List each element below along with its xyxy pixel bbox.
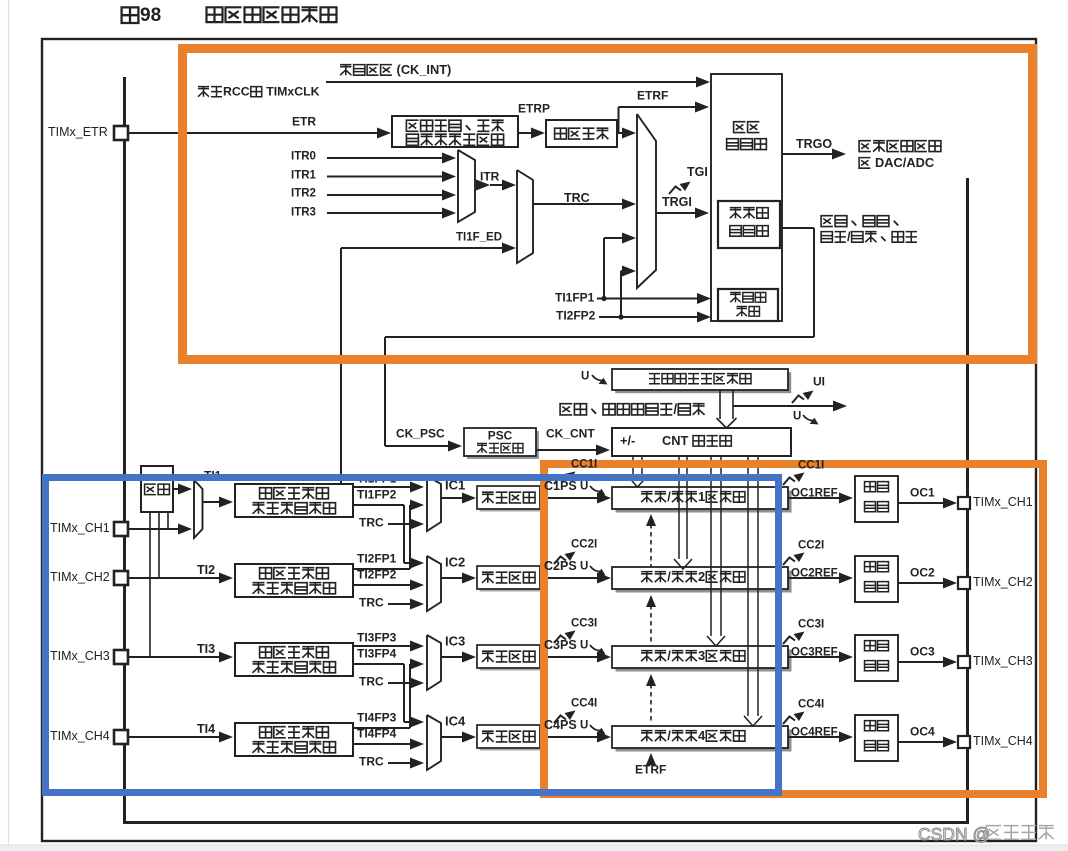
block: slave mode controller	[718, 201, 780, 248]
block: capture/compare register 1	[616, 491, 792, 513]
block: capture/compare register 2	[616, 571, 792, 593]
svg-text:ETRF: ETRF	[635, 763, 666, 777]
block: input filter	[546, 120, 617, 147]
svg-text:U: U	[793, 410, 801, 422]
mux: ITR selector	[458, 150, 475, 222]
block: encoder interface	[718, 289, 778, 321]
svg-text:TIMx_CH4: TIMx_CH4	[50, 729, 110, 743]
wire TRC into IC mux channel 2	[388, 603, 412, 605]
label from RCC TIMxCLK	[198, 87, 209, 97]
squiggle CC2I right	[783, 553, 805, 566]
wire TI3FP4 filter down to next channel mux	[353, 663, 404, 665]
block: XOR	[141, 466, 173, 512]
page bottom gray strip	[0, 846, 1068, 851]
svg-text:TI3: TI3	[197, 642, 215, 656]
svg-text:CC2I: CC2I	[798, 539, 824, 551]
wire TI1 mux output to channel1 filter	[203, 501, 222, 503]
wire update event UI to right	[733, 405, 834, 407]
squiggle CC2I left	[554, 552, 576, 565]
left vertical bus wire	[123, 77, 126, 823]
svg-text:ITR3: ITR3	[291, 206, 316, 218]
wire TI1FP2 filter down to next channel mux	[353, 504, 404, 506]
wire ETR from TIMx_ETR pin to polarity block	[128, 132, 379, 134]
svg-text:U: U	[580, 639, 588, 651]
wire OC4 to pin	[898, 741, 945, 743]
svg-text:OC3: OC3	[910, 645, 935, 659]
wire TI1 input	[128, 528, 180, 530]
double wire CNT to capture register 1	[632, 456, 634, 477]
svg-text:3: 3	[698, 648, 705, 663]
svg-text:TRGI: TRGI	[662, 195, 692, 209]
squiggle CC1I left	[554, 472, 576, 485]
block: output control channel 2	[855, 556, 898, 602]
label to other timers / DAC ADC	[859, 141, 871, 152]
svg-text:(CK_INT): (CK_INT)	[393, 62, 451, 77]
wire TRGI mux output to trigger controller	[656, 212, 696, 214]
orange highlight box top (trigger section)	[183, 49, 1033, 360]
svg-text:/: /	[667, 489, 671, 504]
svg-text:TI3FP3: TI3FP3	[357, 631, 397, 645]
svg-text:U: U	[580, 719, 588, 731]
TIMx_CH3 right pin square	[958, 656, 970, 668]
svg-text:1: 1	[698, 489, 705, 504]
svg-text:ITR2: ITR2	[291, 187, 316, 199]
TIMx_CH4 left pin square	[114, 730, 128, 744]
wire TRC into IC mux channel 4	[388, 762, 412, 764]
svg-text:TI4FP3: TI4FP3	[357, 711, 397, 725]
wire C1PS prescaler to capture register	[540, 497, 599, 499]
double wire CNT to capture register 2	[678, 456, 680, 559]
TIMx_CH3 left pin square	[114, 650, 128, 664]
wire TI4 input	[128, 736, 221, 738]
svg-text:/: /	[673, 401, 677, 416]
wire OC2REF to output control	[788, 577, 841, 579]
wire ETRF into capture register 4	[646, 753, 656, 765]
mux: TRC selector	[517, 170, 533, 263]
svg-text:TRC: TRC	[359, 675, 384, 689]
svg-text:TRC: TRC	[359, 516, 384, 530]
svg-text:CC3I: CC3I	[571, 617, 597, 629]
svg-text:CNT: CNT	[662, 433, 692, 448]
wire ITR3	[327, 212, 445, 214]
dashed compare wire capture3 up arrow	[646, 674, 656, 686]
block: capture/compare register 3	[616, 650, 792, 672]
svg-text:U: U	[580, 480, 588, 492]
svg-text:/: /	[667, 728, 671, 743]
svg-text:4: 4	[698, 728, 706, 743]
label internal clock CK_INT	[340, 65, 351, 76]
wire OC1REF to output control	[788, 497, 841, 499]
svg-text:CC1I: CC1I	[798, 459, 824, 471]
svg-text:TI2: TI2	[197, 563, 215, 577]
svg-text:TI1F_ED: TI1F_ED	[456, 231, 502, 243]
svg-text:TI3FP4: TI3FP4	[357, 647, 397, 661]
double wire CNT to capture register 3	[710, 456, 712, 636]
svg-text:IC4: IC4	[445, 713, 466, 728]
svg-text:TIMx_CH3: TIMx_CH3	[973, 654, 1033, 668]
block: CNT counter	[612, 428, 791, 456]
svg-text:CC1I: CC1I	[571, 458, 597, 470]
svg-text:TIMx_CH4: TIMx_CH4	[973, 734, 1033, 748]
svg-text:TI1FP1: TI1FP1	[555, 291, 595, 305]
wire TI1F_ED from channel1 filter to TRC mux	[340, 248, 342, 484]
svg-text:CK_CNT: CK_CNT	[546, 427, 595, 441]
svg-text:UI: UI	[813, 375, 825, 389]
block: input filter edge detector channel 2	[235, 564, 353, 597]
dashed compare wire capture1 to CNT with up arrow	[646, 514, 656, 526]
svg-text:C3PS: C3PS	[544, 638, 577, 652]
svg-text:/: /	[667, 648, 671, 663]
wire TRGO output	[782, 153, 833, 155]
svg-text:IC2: IC2	[445, 554, 465, 569]
svg-text:C4PS: C4PS	[544, 718, 577, 732]
wire C2PS prescaler to capture register	[540, 577, 599, 579]
wire TI1FP1 to encoder interface and trigger mux	[597, 298, 699, 300]
wire OC1 to pin	[898, 502, 945, 504]
svg-text:TIMx_ETR: TIMx_ETR	[48, 125, 108, 139]
page left margin rule	[8, 0, 10, 851]
block: trigger controller	[711, 74, 782, 321]
svg-text:DAC/ADC: DAC/ADC	[872, 155, 935, 170]
wire TI2 input	[128, 577, 221, 579]
svg-text:ITR0: ITR0	[291, 150, 316, 162]
svg-text:TRC: TRC	[359, 596, 384, 610]
TIMx_CH4 right pin square	[958, 736, 970, 748]
svg-text:OC1: OC1	[910, 486, 935, 500]
block: PSC prescaler	[467, 431, 539, 459]
TIMx_CH2 right pin square	[958, 577, 970, 589]
squiggle CC4I left	[554, 711, 576, 724]
label reset enable updown count	[821, 216, 833, 227]
mux: trigger selector TRGI	[637, 114, 656, 288]
orange highlight box bottom right (capture compare section)	[544, 464, 1043, 794]
TIMx_CH2 left pin square	[114, 571, 128, 585]
block: input filter edge detector channel 3	[235, 643, 353, 676]
wire ETRF from input filter to trigger mux and trigger controller	[617, 132, 624, 134]
blue highlight box bottom left (input stage)	[46, 478, 779, 793]
wire CK_CNT PSC to CNT	[536, 449, 598, 451]
wire TI2FP2 filter to IC mux	[353, 584, 413, 586]
block: IC prescaler channel 1	[480, 489, 543, 512]
block: IC prescaler channel 4	[480, 728, 543, 751]
svg-text:/: /	[847, 229, 851, 244]
dashed compare wire capture2 up arrow	[646, 595, 656, 607]
wire TI2FP2 to encoder interface and trigger mux	[599, 316, 699, 318]
wire TI4FP3 filter up to previous channel mux	[353, 727, 410, 729]
block: capture/compare register 4	[616, 730, 792, 752]
bottom bus wire	[123, 821, 967, 824]
wire ITR0	[327, 157, 445, 159]
block: IC prescaler channel 3	[480, 648, 543, 671]
wire TRC into IC mux channel 3	[388, 682, 412, 684]
wire ETRP polarity block to input filter	[518, 132, 533, 134]
svg-text:CC3I: CC3I	[798, 618, 824, 630]
svg-text:TI2FP2: TI2FP2	[556, 309, 596, 323]
mux: IC4 selector	[427, 715, 441, 770]
wire IC4 to prescaler	[441, 736, 465, 738]
squiggle CC3I left	[554, 631, 576, 644]
wire C4PS prescaler to capture register	[540, 736, 599, 738]
block: input filter edge detector channel 4	[235, 723, 353, 756]
wire TI3 input	[128, 656, 221, 658]
block: output control channel 1	[855, 476, 898, 522]
wire TI4FP4 filter to IC mux	[353, 743, 413, 745]
wire TRC into IC mux channel 1	[388, 523, 412, 525]
wire TI3FP3 filter to IC mux	[353, 645, 413, 647]
svg-text:+/-: +/-	[620, 433, 635, 448]
svg-text:TGI: TGI	[687, 165, 708, 179]
label stop clear or up/down	[560, 404, 572, 415]
wire CK_INT to trigger controller	[326, 81, 698, 83]
svg-text:TRGO: TRGO	[796, 137, 832, 151]
wire ITR mux output to TRC mux	[476, 180, 490, 191]
squiggle CC4I right	[783, 712, 805, 725]
svg-text:TI4: TI4	[197, 722, 215, 736]
squiggle CC3I right	[783, 632, 805, 645]
TIMx_CH1 left pin square	[114, 522, 128, 536]
wire OC4REF to output control	[788, 736, 841, 738]
block: IC prescaler channel 2	[480, 569, 543, 592]
squiggle U into auto-reload	[592, 375, 608, 385]
squiggle CC1I right	[783, 473, 805, 486]
labels drawn above highlight boxes	[544, 458, 824, 734]
wire OC3 to pin	[898, 661, 945, 663]
svg-text:CK_PSC: CK_PSC	[396, 427, 445, 441]
svg-text:ITR1: ITR1	[291, 169, 317, 181]
svg-text:U: U	[580, 560, 588, 572]
block: auto-reload register	[615, 372, 791, 393]
svg-text:ETRF: ETRF	[637, 89, 668, 103]
wire slave mode controller to prescaler (reset enable up/down count)	[782, 227, 814, 229]
mux: TI1 input selector	[194, 480, 203, 538]
wire IC2 to prescaler	[441, 577, 465, 579]
wire TI2FP1 filter up to previous channel mux	[353, 568, 410, 570]
title: figure 98 general purpose timer block diagram	[122, 7, 139, 23]
svg-text:/: /	[667, 569, 671, 584]
svg-text:RCC: RCC	[223, 84, 250, 98]
wire ITR1	[327, 176, 445, 178]
mux: IC1 selector	[427, 476, 441, 531]
svg-text:TIMx_CH3: TIMx_CH3	[50, 649, 110, 663]
double wire auto-reload to CNT	[719, 390, 721, 419]
wire IC3 to prescaler	[441, 656, 465, 658]
svg-text:TIMx_CH1: TIMx_CH1	[50, 521, 110, 535]
svg-text:CC4I: CC4I	[798, 698, 824, 710]
svg-text:ITR: ITR	[480, 170, 500, 184]
double wire CNT to capture register 4	[747, 456, 749, 716]
block: output control channel 4	[855, 715, 898, 761]
svg-text:TIMxCLK: TIMxCLK	[263, 84, 320, 98]
svg-text:IC3: IC3	[445, 633, 465, 648]
svg-text:ETR: ETR	[292, 115, 316, 129]
wire OC3REF to output control	[788, 656, 841, 658]
mux: IC2 selector	[427, 556, 441, 611]
wire ITR2	[327, 194, 445, 196]
block: output control channel 3	[855, 635, 898, 681]
svg-text:OC2: OC2	[910, 566, 935, 580]
svg-text:2: 2	[698, 569, 705, 584]
wire TI1FP1 filter to IC mux	[353, 486, 413, 488]
svg-text:U: U	[581, 370, 589, 382]
wire TRC from TRC mux to trigger mux	[533, 203, 624, 205]
svg-text:C1PS: C1PS	[544, 479, 577, 493]
svg-text:C2PS: C2PS	[544, 559, 577, 573]
svg-text:CC4I: CC4I	[571, 697, 597, 709]
svg-text:TI1FP2: TI1FP2	[357, 488, 397, 502]
mux: IC3 selector	[427, 635, 441, 690]
wires XOR taps to channels	[149, 512, 151, 657]
svg-text:TRC: TRC	[564, 191, 590, 205]
svg-text:TIMx_CH2: TIMx_CH2	[50, 570, 110, 584]
svg-text:CC2I: CC2I	[571, 538, 597, 550]
wire XOR output to TI1 mux	[173, 488, 181, 490]
wire IC1 to prescaler	[441, 497, 465, 499]
block: polarity selection edge detection prescaler	[392, 116, 518, 147]
wire OC2 to pin	[898, 582, 945, 584]
block: input filter edge detector channel 1	[235, 484, 353, 517]
svg-text:TI2FP1: TI2FP1	[357, 552, 397, 566]
svg-text:ETRP: ETRP	[518, 102, 550, 116]
svg-text:OC4: OC4	[910, 725, 935, 739]
interrupt squiggle TGI	[669, 182, 691, 195]
interrupt squiggle UI	[792, 391, 814, 404]
right vertical bus wire	[966, 178, 969, 824]
svg-text:TIMx_CH2: TIMx_CH2	[973, 575, 1033, 589]
svg-text:CSDN @: CSDN @	[918, 824, 990, 844]
svg-text:TIMx_CH1: TIMx_CH1	[973, 495, 1033, 509]
svg-text:PSC: PSC	[488, 429, 513, 443]
svg-text:98: 98	[140, 5, 161, 26]
TIMx_ETR pin square	[114, 126, 128, 140]
TIMx_CH1 right pin square	[958, 497, 970, 509]
wire C3PS prescaler to capture register	[540, 656, 599, 658]
svg-text:TRC: TRC	[359, 755, 384, 769]
